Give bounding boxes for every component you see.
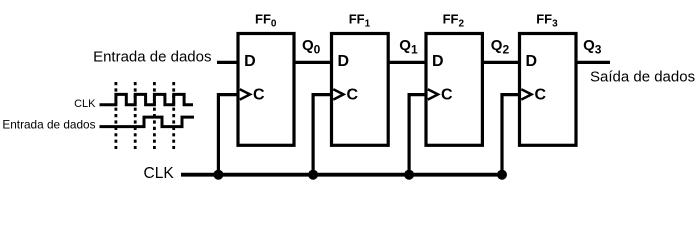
junction dot CLK-FF3 [497,170,507,180]
clock edge triangle FF2 pin C [428,89,438,99]
wire CLK feed to FF0 pin C [218,95,238,175]
svg-text:Entrada de dados: Entrada de dados [93,48,211,65]
wire Q3 output [576,61,610,64]
clock edge triangle FF0 pin C [240,89,250,99]
waveform CLK [100,94,194,104]
waveform Entrada de dados [100,117,195,127]
svg-text:FF3: FF3 [536,11,558,29]
svg-text:Q3: Q3 [583,37,602,56]
wire CLK feed to FF1 pin C [313,95,331,175]
wire Q1 FF1 to FF2 pin D [388,61,426,64]
flip-flop FF1 [332,34,389,146]
svg-text:CLK: CLK [144,165,175,182]
svg-text:Q2: Q2 [491,37,510,56]
wire data input to FF0 pin D [217,61,238,64]
svg-text:Q0: Q0 [302,37,321,56]
timing grid dotted line 4 [172,82,175,149]
svg-text:C: C [347,87,359,104]
flip-flop FF2 [426,34,482,146]
svg-text:FF1: FF1 [349,11,371,29]
junction dot CLK-FF1 [308,170,318,180]
wire CLK bus [181,173,502,177]
svg-text:D: D [526,53,538,70]
svg-text:Q1: Q1 [399,37,418,56]
svg-text:Saída de dados: Saída de dados [590,69,695,86]
svg-text:C: C [441,87,453,104]
svg-text:D: D [338,53,350,70]
clock edge triangle FF1 pin C [333,89,343,99]
timing grid dotted line 3 [153,82,156,149]
wire Q2 FF2 to FF3 pin D [482,61,519,64]
flip-flop FF3 [520,34,577,146]
timing grid dotted line 1 [115,82,118,149]
svg-text:Entrada de dados: Entrada de dados [2,118,95,132]
timing grid dotted line 2 [134,82,137,149]
svg-text:D: D [244,53,256,70]
wire CLK feed to FF3 pin C [502,95,520,175]
junction dot CLK-FF2 [404,170,414,180]
svg-text:FF2: FF2 [443,11,465,29]
svg-text:FF0: FF0 [255,11,277,29]
svg-text:C: C [253,87,265,104]
flip-flop FF0 [238,34,294,146]
wire Q0 FF0 to FF1 pin D [294,61,332,64]
svg-text:CLK: CLK [74,98,96,110]
svg-text:D: D [432,53,444,70]
junction dot CLK-FF0 [213,170,223,180]
clock edge triangle FF3 pin C [521,89,531,99]
svg-text:C: C [535,87,547,104]
wire CLK feed to FF2 pin C [409,95,426,175]
